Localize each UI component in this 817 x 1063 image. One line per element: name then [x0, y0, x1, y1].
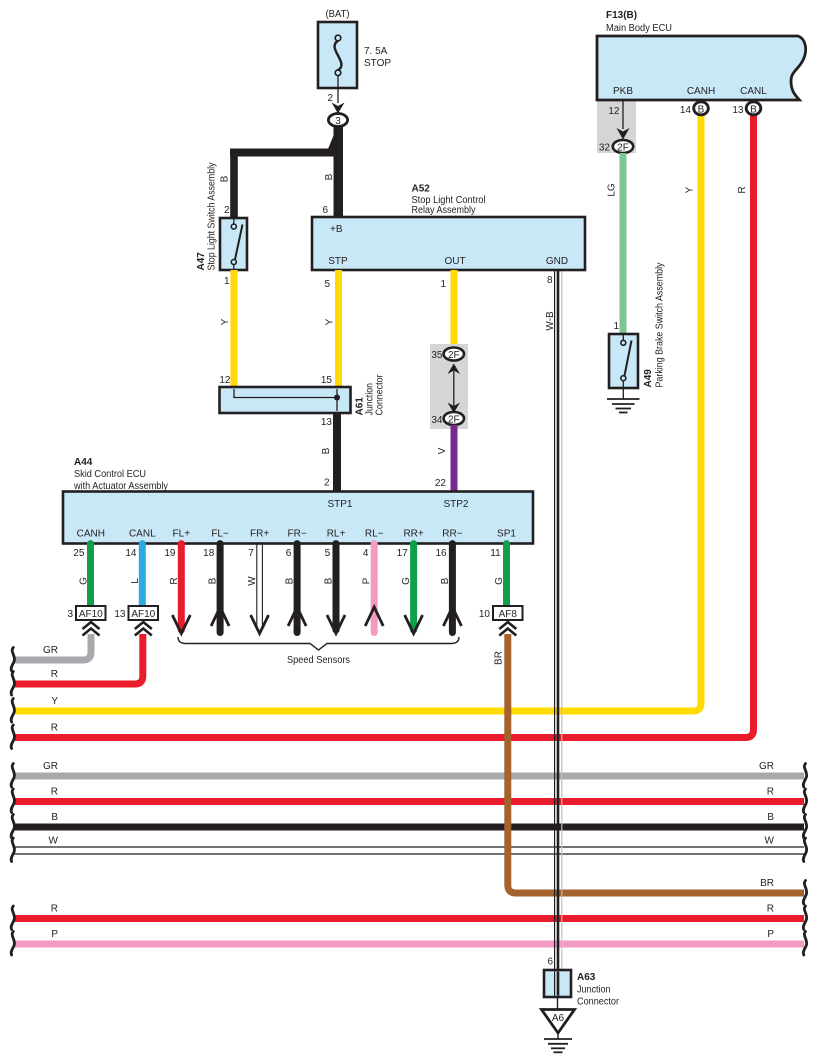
svg-text:BR: BR — [494, 651, 505, 665]
svg-text:FR+: FR+ — [250, 529, 269, 540]
svg-text:Junction: Junction — [577, 985, 611, 996]
svg-text:B: B — [285, 577, 296, 584]
svg-text:13: 13 — [732, 105, 744, 116]
svg-text:Y: Y — [220, 318, 231, 325]
svg-text:11: 11 — [490, 548, 501, 559]
svg-text:RR−: RR− — [442, 529, 462, 540]
svg-text:B: B — [440, 577, 451, 584]
svg-text:G: G — [78, 577, 89, 585]
svg-text:CANH: CANH — [687, 86, 715, 97]
svg-text:LG: LG — [607, 183, 618, 197]
svg-text:Connector: Connector — [577, 997, 620, 1008]
svg-text:CANL: CANL — [129, 529, 156, 540]
svg-text:6: 6 — [547, 957, 553, 968]
svg-text:Parking Brake Switch Assembly: Parking Brake Switch Assembly — [655, 263, 666, 388]
svg-text:1: 1 — [224, 276, 230, 287]
svg-text:R: R — [767, 787, 774, 798]
svg-text:FL+: FL+ — [173, 529, 191, 540]
svg-text:12: 12 — [219, 375, 231, 386]
svg-text:GR: GR — [759, 761, 774, 772]
svg-text:7: 7 — [248, 548, 254, 559]
svg-text:2F: 2F — [448, 414, 460, 425]
svg-text:A6: A6 — [552, 1013, 565, 1024]
svg-text:4: 4 — [363, 548, 369, 559]
svg-text:B: B — [698, 104, 705, 115]
svg-text:Stop Light Switch Assembly: Stop Light Switch Assembly — [207, 163, 218, 271]
svg-text:25: 25 — [73, 548, 85, 559]
svg-text:B: B — [220, 175, 231, 182]
svg-text:15: 15 — [321, 375, 333, 386]
svg-text:L: L — [130, 578, 141, 584]
svg-text:GR: GR — [43, 645, 58, 656]
svg-text:5: 5 — [324, 279, 330, 290]
svg-text:Y: Y — [685, 186, 696, 193]
svg-text:1: 1 — [613, 321, 619, 332]
svg-text:GND: GND — [546, 256, 568, 267]
svg-text:CANL: CANL — [740, 86, 767, 97]
svg-text:STOP: STOP — [364, 58, 391, 69]
svg-text:5: 5 — [325, 548, 331, 559]
svg-text:8: 8 — [547, 275, 553, 286]
svg-text:2F: 2F — [448, 350, 460, 361]
svg-text:34: 34 — [431, 415, 443, 426]
svg-text:B: B — [767, 812, 774, 823]
svg-text:RL−: RL− — [365, 529, 384, 540]
svg-text:2F: 2F — [617, 142, 629, 153]
svg-text:AF8: AF8 — [499, 609, 518, 620]
svg-text:B: B — [324, 173, 335, 180]
svg-text:FL−: FL− — [211, 529, 229, 540]
svg-text:SP1: SP1 — [497, 529, 516, 540]
svg-text:P: P — [767, 929, 774, 940]
svg-text:3: 3 — [67, 609, 73, 620]
svg-text:32: 32 — [599, 143, 611, 154]
svg-text:R: R — [169, 577, 180, 584]
svg-text:B: B — [208, 577, 219, 584]
svg-text:16: 16 — [435, 548, 447, 559]
svg-text:V: V — [437, 447, 448, 454]
svg-text:22: 22 — [435, 478, 447, 489]
svg-text:7. 5A: 7. 5A — [364, 46, 388, 57]
svg-text:AF10: AF10 — [79, 609, 103, 620]
svg-text:Connector: Connector — [375, 374, 386, 416]
svg-text:14: 14 — [125, 548, 137, 559]
svg-text:A44: A44 — [74, 457, 93, 468]
svg-text:R: R — [51, 904, 58, 915]
svg-text:13: 13 — [321, 417, 333, 428]
svg-text:12: 12 — [608, 106, 620, 117]
svg-text:W: W — [765, 836, 775, 847]
svg-text:W: W — [247, 576, 258, 586]
svg-text:B: B — [750, 104, 757, 115]
svg-text:F13(B): F13(B) — [606, 10, 637, 21]
svg-text:AF10: AF10 — [131, 609, 155, 620]
svg-text:A52: A52 — [412, 184, 431, 195]
svg-text:Y: Y — [51, 696, 58, 707]
svg-text:G: G — [494, 577, 505, 585]
svg-text:10: 10 — [479, 609, 491, 620]
svg-text:RR+: RR+ — [403, 529, 423, 540]
svg-text:Y: Y — [325, 318, 336, 325]
svg-text:BR: BR — [760, 878, 774, 889]
svg-text:Main Body ECU: Main Body ECU — [606, 23, 672, 34]
svg-text:6: 6 — [286, 548, 292, 559]
svg-text:19: 19 — [164, 548, 176, 559]
svg-text:B: B — [321, 447, 332, 454]
svg-text:R: R — [767, 904, 774, 915]
svg-text:Relay Assembly: Relay Assembly — [412, 205, 476, 216]
svg-text:RL+: RL+ — [327, 529, 346, 540]
svg-text:Skid Control ECU: Skid Control ECU — [74, 469, 146, 480]
svg-text:R: R — [51, 669, 58, 680]
svg-text:STP1: STP1 — [327, 499, 352, 510]
svg-text:R: R — [51, 723, 58, 734]
svg-text:G: G — [401, 577, 412, 585]
svg-text:14: 14 — [680, 105, 692, 116]
svg-text:CANH: CANH — [77, 529, 105, 540]
svg-text:18: 18 — [203, 548, 215, 559]
svg-text:W-B: W-B — [545, 311, 556, 331]
svg-text:17: 17 — [397, 548, 409, 559]
svg-text:A49: A49 — [643, 369, 654, 388]
svg-text:GR: GR — [43, 761, 58, 772]
svg-text:Speed Sensors: Speed Sensors — [287, 655, 350, 666]
svg-text:STP2: STP2 — [443, 499, 468, 510]
svg-text:13: 13 — [114, 609, 126, 620]
svg-text:3: 3 — [335, 116, 341, 127]
svg-text:B: B — [51, 812, 58, 823]
svg-text:2: 2 — [224, 205, 230, 216]
svg-text:2: 2 — [327, 93, 333, 104]
svg-text:A47: A47 — [196, 252, 207, 271]
svg-text:1: 1 — [440, 279, 446, 290]
svg-text:(BAT): (BAT) — [326, 9, 350, 20]
svg-text:+B: +B — [330, 224, 343, 235]
svg-text:6: 6 — [322, 205, 328, 216]
svg-text:P: P — [362, 577, 373, 584]
svg-text:STP: STP — [328, 256, 348, 267]
svg-text:A63: A63 — [577, 972, 596, 983]
svg-text:35: 35 — [431, 350, 443, 361]
svg-text:B: B — [324, 577, 335, 584]
svg-text:2: 2 — [324, 478, 330, 489]
svg-text:R: R — [737, 186, 748, 193]
svg-text:PKB: PKB — [613, 86, 633, 97]
svg-text:P: P — [51, 929, 58, 940]
svg-text:R: R — [51, 787, 58, 798]
svg-text:W: W — [49, 836, 59, 847]
svg-text:FR−: FR− — [288, 529, 307, 540]
svg-text:OUT: OUT — [444, 256, 465, 267]
